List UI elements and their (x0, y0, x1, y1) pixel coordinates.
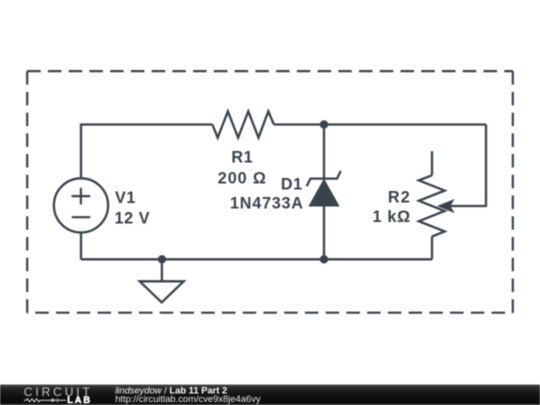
svg-text:V1: V1 (115, 189, 136, 207)
wire: bottom rail (81, 258, 432, 260)
svg-text:http://circuitlab.com/cve9x8je: http://circuitlab.com/cve9x8je4a6vy (115, 393, 261, 404)
svg-text:1 kΩ: 1 kΩ (373, 208, 411, 226)
zener diode D1 (307, 125, 341, 260)
schematic boundary dashed box (27, 71, 513, 313)
resistor R1 (212, 111, 274, 137)
svg-text:R2: R2 (388, 189, 411, 207)
svg-text:1N4733A: 1N4733A (230, 195, 304, 213)
potentiometer R2 (419, 151, 455, 259)
CircuitLab logo mini schematic resistor (24, 399, 51, 402)
node: junction at top of D1 (320, 120, 328, 128)
node: junction at bottom of D1 (320, 255, 328, 263)
wire: V1 top lead up and across to R1 (81, 125, 212, 179)
node: ground junction (158, 255, 166, 263)
wire: right side down to R2 wiper (450, 125, 486, 207)
voltage source V1 (54, 178, 108, 232)
wire: V1 bottom lead (80, 233, 82, 260)
svg-text:D1: D1 (281, 176, 303, 194)
svg-text:12 V: 12 V (115, 209, 151, 227)
ground (140, 259, 184, 302)
svg-text:LAB: LAB (67, 395, 92, 405)
svg-text:R1: R1 (231, 149, 253, 167)
wire: R1 right to top-right corner (274, 123, 486, 125)
footer bar (0, 385, 540, 405)
CircuitLab logo mini schematic diode (51, 398, 66, 402)
svg-text:200 Ω: 200 Ω (218, 169, 267, 187)
